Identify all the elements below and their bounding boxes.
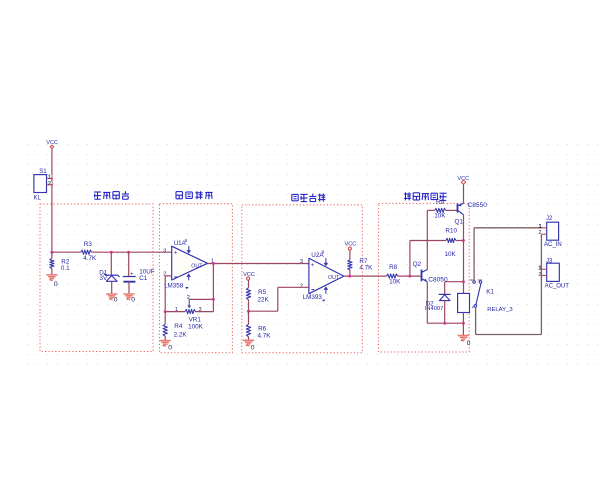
op-amp U1A LM358 xyxy=(172,246,208,280)
svg-text:R9: R9 xyxy=(436,199,445,206)
svg-text:0: 0 xyxy=(467,340,471,347)
svg-text:LM393: LM393 xyxy=(303,294,323,301)
wire relay NC contact to AC_IN pin1 xyxy=(473,228,475,281)
wire to D2 cathode xyxy=(445,281,464,283)
diode D2 1N4007 xyxy=(439,293,451,295)
title block2 (4 chars) xyxy=(175,192,177,199)
title block4 (5 chars) xyxy=(404,193,411,195)
node D2 anode junction xyxy=(443,322,446,325)
svg-text:VR1: VR1 xyxy=(189,317,202,324)
potentiometer VR1 100K xyxy=(185,309,196,313)
J3 pin 1 xyxy=(541,268,546,270)
node VR1 pin1 junction xyxy=(164,310,167,313)
U2A power pin 4 arrow xyxy=(325,290,327,294)
J2 pin 1 xyxy=(541,227,546,229)
U2A power pin 8 arrow xyxy=(325,258,327,263)
svg-text:1: 1 xyxy=(539,224,542,230)
transistor Q2 C8050 xyxy=(421,270,423,282)
svg-text:10K: 10K xyxy=(434,213,446,220)
block box 2 (signal amplify) xyxy=(160,204,233,353)
svg-text:C8550: C8550 xyxy=(468,202,488,209)
J2 pin 2 xyxy=(541,233,546,235)
svg-text:R6: R6 xyxy=(258,325,267,332)
title block3 (4 chars) xyxy=(292,193,298,195)
wire VR1 pin3 xyxy=(196,311,214,313)
svg-text:R10: R10 xyxy=(445,227,457,234)
S1 pin 1 xyxy=(47,178,52,180)
node Q2 base junction xyxy=(408,275,411,278)
ground below relay coil xyxy=(458,335,469,337)
svg-text:NO: NO xyxy=(478,278,483,282)
node R10 right junction xyxy=(462,239,465,242)
feedback wire down xyxy=(212,264,214,312)
svg-text:10K: 10K xyxy=(445,251,457,258)
wire U1A pin2 xyxy=(165,275,172,277)
svg-text:K1: K1 xyxy=(486,289,494,296)
svg-text:OUT: OUT xyxy=(328,275,340,281)
resistor R6 4.7K xyxy=(248,311,250,324)
ground below D1 xyxy=(106,293,117,295)
svg-text:3V: 3V xyxy=(100,275,109,282)
node output junction xyxy=(212,262,215,265)
U1A power pin 4 arrow xyxy=(188,277,190,281)
wire VCC to main node xyxy=(51,148,53,252)
node C1 junction xyxy=(127,251,130,254)
resistor R9 10K xyxy=(435,208,446,212)
svg-text:2.2K: 2.2K xyxy=(174,331,188,338)
wire U2A output xyxy=(344,275,387,277)
svg-text:J2: J2 xyxy=(546,216,553,222)
svg-text:8: 8 xyxy=(322,249,325,254)
svg-text:100K: 100K xyxy=(188,324,204,331)
block box 3 (voltage compare) xyxy=(242,205,362,353)
node D1 junction xyxy=(110,251,113,254)
svg-text:0: 0 xyxy=(251,344,255,351)
wire Q2 emitter down xyxy=(426,282,428,324)
switch S1 (KL) xyxy=(34,175,47,193)
capacitor C1 10UF xyxy=(128,252,130,276)
node main-left junction xyxy=(50,251,53,254)
relay K1 coil xyxy=(458,293,470,312)
svg-text:+: + xyxy=(130,271,133,277)
svg-text:J3: J3 xyxy=(546,258,553,264)
wire U1A output to U2A xyxy=(208,263,309,265)
svg-text:LM358: LM358 xyxy=(164,283,184,290)
ground below C1 xyxy=(123,293,134,295)
block box 4 (drive and latch) xyxy=(379,203,470,352)
resistor R10 10K xyxy=(446,238,456,242)
node coil bottom junction xyxy=(462,322,465,325)
svg-text:+: + xyxy=(174,249,178,256)
wire VR1 pin1 xyxy=(165,311,185,313)
resistor R5 22K xyxy=(248,280,250,288)
transistor Q1 C8550 xyxy=(457,204,459,213)
svg-text:Q1: Q1 xyxy=(455,218,464,225)
svg-text:22K: 22K xyxy=(258,296,270,303)
wire VR1 wiper to feedback xyxy=(189,298,213,300)
resistor R4 2.2K xyxy=(164,312,166,325)
svg-text:C1: C1 xyxy=(139,275,148,282)
title block1 (4 chars) xyxy=(94,191,101,193)
svg-text:3: 3 xyxy=(163,248,166,254)
wire Q2 collector up to R9 xyxy=(426,210,428,269)
svg-text:10K: 10K xyxy=(389,279,401,286)
node feedback-wiper junction xyxy=(212,298,215,301)
svg-text:0: 0 xyxy=(114,297,118,304)
svg-text:2: 2 xyxy=(300,283,303,289)
svg-text:3: 3 xyxy=(300,259,303,265)
svg-text:RELAY_3: RELAY_3 xyxy=(487,307,513,313)
connector J2 AC_IN xyxy=(547,222,559,240)
node D2 top junction xyxy=(462,280,465,283)
svg-text:R8: R8 xyxy=(389,264,398,271)
J3 pin 2 xyxy=(541,274,546,276)
block box 1 (sampling protection) xyxy=(40,204,153,352)
svg-text:P: P xyxy=(472,306,474,310)
S1 pin 2 xyxy=(47,184,52,186)
ground below R4 xyxy=(160,340,171,342)
svg-text:4.7K: 4.7K xyxy=(83,255,97,262)
svg-text:2: 2 xyxy=(539,230,542,236)
svg-text:S1: S1 xyxy=(39,169,47,175)
svg-text:4.7K: 4.7K xyxy=(258,332,272,339)
svg-text:2: 2 xyxy=(187,295,190,301)
connector J3 AC_OUT xyxy=(547,263,560,281)
svg-text:0.1: 0.1 xyxy=(61,265,70,272)
svg-text:2: 2 xyxy=(539,272,542,278)
wire bottom rail xyxy=(427,322,463,324)
wire relay pole to AC_IN pin2 rail xyxy=(475,307,477,334)
svg-text:8: 8 xyxy=(185,238,188,243)
resistor R7 4.7K xyxy=(349,250,351,260)
svg-text:+: + xyxy=(311,262,315,269)
svg-text:2: 2 xyxy=(48,181,51,187)
svg-text:1: 1 xyxy=(48,175,51,181)
svg-text:AC_IN: AC_IN xyxy=(544,242,562,248)
svg-text:0: 0 xyxy=(54,281,58,288)
svg-text:0: 0 xyxy=(168,345,172,352)
svg-text:R5: R5 xyxy=(258,289,267,296)
relay K1 contacts xyxy=(473,281,476,284)
U1A power pin 8 arrow xyxy=(188,246,190,251)
ground below R2 xyxy=(46,274,57,276)
zener diode D1 3V xyxy=(110,252,112,275)
node R5/R6 junction xyxy=(247,310,250,313)
svg-text:R3: R3 xyxy=(84,241,93,248)
resistor R3 xyxy=(81,250,92,254)
wire divider to U2A pin2 xyxy=(249,310,278,312)
main horizontal wire xyxy=(52,251,81,253)
wire Q1 collector down to relay coil xyxy=(463,215,465,294)
wire R10 branch xyxy=(409,241,411,277)
ground below R6 xyxy=(243,339,254,341)
svg-text:AC_OUT: AC_OUT xyxy=(545,284,570,290)
resistor R8 10K xyxy=(387,274,398,278)
svg-text:0: 0 xyxy=(131,297,135,304)
svg-text:OUT: OUT xyxy=(191,263,203,269)
node R7 junction xyxy=(348,275,351,278)
resistor R2 xyxy=(51,252,53,258)
svg-text:4.7K: 4.7K xyxy=(359,265,373,272)
svg-text:R4: R4 xyxy=(174,323,183,330)
svg-text:KL: KL xyxy=(34,195,42,201)
svg-text:Q2: Q2 xyxy=(413,261,422,268)
op-amp U2A LM393 xyxy=(309,258,344,294)
S1 pin highlight xyxy=(47,175,52,179)
